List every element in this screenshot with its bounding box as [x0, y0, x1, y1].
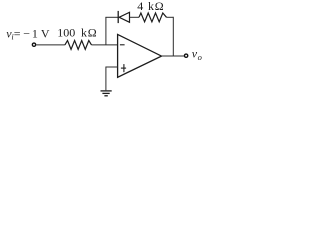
op-amp minus sign	[120, 44, 125, 46]
diode D1 triangle	[119, 12, 129, 22]
label vi = -1 V	[6, 27, 50, 42]
output terminal	[184, 54, 187, 57]
label vo	[192, 47, 202, 62]
wire R2 to top-right corner	[167, 16, 174, 18]
wire ground vertical	[105, 67, 107, 91]
svg-text:1: 1	[32, 27, 38, 41]
wire R1 to op-amp inverting input	[92, 44, 118, 46]
wire plus input	[106, 66, 118, 68]
wire feedback right vertical down to output	[172, 17, 174, 56]
wire diode to R2	[130, 16, 140, 18]
ground symbol	[101, 91, 112, 96]
svg-text:−: −	[23, 27, 30, 41]
svg-text:V: V	[41, 27, 50, 41]
wire feedback tap vertical	[105, 17, 107, 45]
resistor R2 4k zigzag	[139, 13, 167, 22]
svg-text:kΩ: kΩ	[148, 0, 165, 13]
svg-text:=: =	[14, 27, 21, 41]
svg-text:100: 100	[57, 26, 75, 40]
wire feedback top horizontal to diode	[105, 16, 118, 18]
op-amp U1 triangle	[118, 34, 162, 77]
wire input terminal to R1	[36, 44, 65, 46]
svg-text:o: o	[198, 52, 202, 62]
wire output	[162, 55, 185, 57]
svg-text:kΩ: kΩ	[81, 26, 98, 40]
input terminal	[32, 43, 35, 46]
svg-text:4: 4	[137, 0, 143, 13]
op-amp plus sign	[121, 64, 126, 72]
diode D1 cathode bar	[117, 11, 119, 23]
resistor R1 100k zigzag	[65, 41, 92, 50]
